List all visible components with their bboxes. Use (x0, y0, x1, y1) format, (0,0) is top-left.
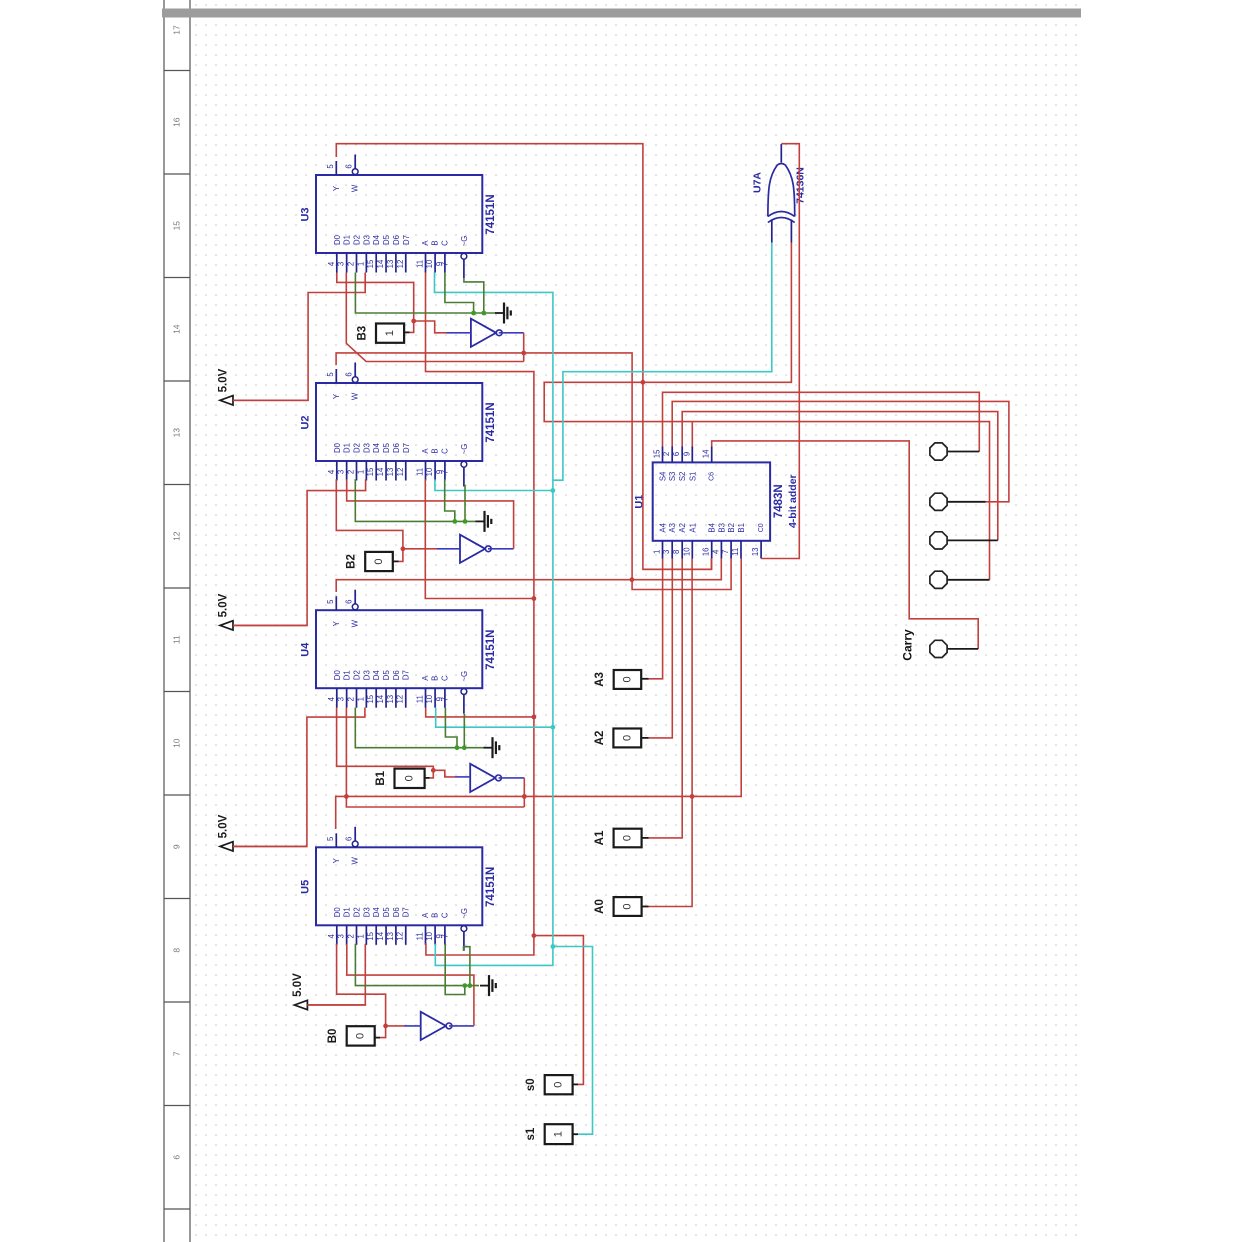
interactive constant B3 box (376, 324, 404, 343)
connector 3 stub (948, 539, 998, 541)
svg-text:13: 13 (386, 468, 395, 477)
svg-text:74151N: 74151N (485, 402, 497, 442)
svg-text:Carry: Carry (901, 629, 915, 661)
svg-text:~G: ~G (460, 671, 469, 682)
wire B2 inverter output to U2.D1 (488, 548, 514, 550)
svg-text:6: 6 (345, 164, 354, 168)
svg-text:5.0V: 5.0V (218, 593, 230, 617)
svg-text:17: 17 (172, 25, 182, 35)
svg-text:11: 11 (172, 635, 182, 644)
svg-text:D4: D4 (372, 234, 381, 245)
svg-text:10: 10 (425, 931, 434, 940)
svg-text:7: 7 (440, 697, 449, 701)
svg-text:3: 3 (337, 934, 346, 938)
svg-text:D0: D0 (333, 442, 342, 453)
svg-text:D5: D5 (382, 234, 391, 245)
wire U3.D3 to 5.0V rail 1 (233, 273, 365, 401)
svg-text:D2: D2 (353, 907, 362, 917)
svg-text:12: 12 (172, 531, 182, 541)
svg-text:D2: D2 (353, 670, 362, 680)
svg-text:12: 12 (396, 468, 405, 477)
svg-text:A: A (421, 675, 430, 681)
svg-text:12: 12 (396, 695, 405, 704)
svg-text:10: 10 (425, 467, 434, 476)
svg-text:D0: D0 (333, 670, 342, 681)
svg-text:s0: s0 (525, 1078, 537, 1091)
svg-text:~G: ~G (460, 908, 469, 919)
U4 pin 5 Y stub (335, 596, 337, 610)
U3 pin 5 Y stub (335, 161, 337, 175)
svg-text:D4: D4 (372, 670, 381, 681)
junction B-net U2.B (551, 488, 556, 493)
wire S4 to connector 1 (663, 392, 980, 451)
svg-text:W: W (351, 856, 360, 864)
svg-text:D0: D0 (333, 234, 342, 245)
ground symbol (476, 520, 485, 522)
svg-text:10: 10 (425, 259, 434, 268)
wire C6 to Carry connector (712, 441, 979, 649)
U2 pin 5 Y stub (335, 369, 337, 383)
svg-text:C: C (440, 675, 449, 681)
IC U3 74151N body (316, 175, 482, 253)
interactive constant A2 box (613, 729, 641, 748)
svg-text:3: 3 (662, 550, 671, 554)
svg-text:11: 11 (416, 932, 425, 940)
svg-text:2: 2 (347, 470, 356, 474)
power symbol 5.0V (220, 621, 233, 630)
junction H1 with B3 inverter output (521, 351, 526, 356)
svg-text:5: 5 (326, 164, 335, 169)
svg-text:6: 6 (345, 372, 354, 376)
sheet border ruler strip (163, 0, 165, 1242)
svg-text:11: 11 (416, 468, 425, 476)
wire S2 to connector 3 (682, 412, 998, 541)
svg-text:C: C (440, 240, 449, 246)
svg-text:4: 4 (327, 469, 336, 474)
svg-text:U2: U2 (300, 415, 312, 429)
svg-text:A3: A3 (668, 523, 677, 533)
svg-text:Y: Y (332, 620, 341, 626)
svg-text:D6: D6 (392, 670, 401, 680)
svg-text:7: 7 (721, 550, 730, 554)
svg-text:15: 15 (653, 449, 662, 458)
wire S1 pin drop (691, 422, 693, 447)
wire U4.D0 to B1 junction (337, 708, 434, 771)
svg-text:1: 1 (356, 262, 365, 266)
junction H1pp with B1 inverter output (522, 794, 527, 799)
svg-text:6: 6 (345, 600, 354, 604)
U2 pin ~G stub with bubble (461, 461, 467, 467)
svg-text:D3: D3 (362, 235, 371, 245)
svg-text:A2: A2 (678, 523, 687, 533)
junction U4 gnd C (455, 745, 460, 750)
svg-text:2: 2 (347, 697, 356, 701)
svg-text:A1: A1 (688, 523, 697, 533)
svg-text:B2: B2 (727, 523, 736, 533)
Carry connector stub (948, 648, 978, 650)
interactive constant A3 box (614, 670, 642, 689)
svg-text:1: 1 (653, 550, 662, 554)
power symbol 5.0V (220, 396, 233, 405)
wire U4.B to B-net (436, 708, 553, 728)
svg-text:D5: D5 (382, 670, 391, 681)
svg-text:10: 10 (682, 547, 691, 556)
wire U3.D1 diagonal to H2 (346, 273, 524, 362)
svg-text:S2: S2 (678, 472, 687, 482)
output connector 2 (930, 493, 947, 510)
svg-text:D0: D0 (333, 907, 342, 918)
svg-text:B4: B4 (708, 522, 717, 532)
IC U4 74151N body (316, 610, 482, 688)
IC U2 74151N body (316, 383, 482, 461)
wire B3 inverter input blue (447, 332, 471, 334)
svg-text:B1: B1 (737, 523, 746, 533)
ground symbol (495, 312, 504, 314)
svg-text:D6: D6 (392, 907, 401, 917)
U2 select pin stubs A B C (425, 461, 427, 481)
svg-text:74151N: 74151N (485, 630, 497, 670)
svg-text:7: 7 (172, 1051, 182, 1056)
wire select-A net from U3.A down to U5.A (426, 273, 534, 956)
svg-text:7: 7 (440, 262, 449, 266)
svg-text:2: 2 (347, 934, 356, 938)
svg-text:B3: B3 (717, 523, 726, 533)
svg-text:74136N: 74136N (795, 167, 807, 204)
svg-text:15: 15 (366, 931, 375, 940)
interactive constant s1 box (545, 1124, 573, 1144)
inverter NOT gate for B2 (460, 535, 485, 563)
svg-text:74151N: 74151N (485, 194, 497, 234)
svg-text:B: B (431, 676, 440, 681)
U1 top pin stubs S4 S3 S2 S1 C6 (662, 447, 664, 463)
wire B0 junction to inverter input (386, 1025, 404, 1027)
Carry connector (930, 640, 947, 657)
junction H1pp with A1 pin line (690, 794, 695, 799)
interactive constant B2 box (365, 552, 393, 571)
wire 5.0V rail 4 stub (307, 1004, 365, 1006)
svg-text:D7: D7 (402, 670, 411, 680)
wire A1 box to U1.A2 (642, 837, 649, 839)
svg-text:0: 0 (622, 903, 634, 909)
wire U4.Y line to U1.B3 (336, 558, 721, 592)
junction U4 gnd ~G (462, 745, 467, 750)
svg-text:2: 2 (662, 452, 671, 456)
junction U2 gnd ~G (463, 519, 468, 524)
junction U3 gnd C (471, 311, 476, 316)
svg-text:9: 9 (172, 844, 182, 849)
svg-text:D4: D4 (372, 442, 381, 453)
svg-text:1: 1 (356, 470, 365, 474)
svg-text:15: 15 (366, 694, 375, 703)
junction U3 gnd ~G (481, 311, 486, 316)
svg-text:B: B (431, 913, 440, 918)
svg-text:B0: B0 (327, 1029, 339, 1044)
svg-text:~G: ~G (460, 444, 469, 455)
svg-text:B1: B1 (375, 770, 387, 785)
svg-text:10: 10 (172, 738, 182, 748)
wire U5.D3 to 5.0V rail 4 (307, 944, 365, 1005)
svg-text:A: A (421, 448, 430, 454)
svg-text:3: 3 (337, 697, 346, 701)
junction H1 vertical with U4.Y line (630, 577, 635, 582)
wire B0 inverter output to U5.D1 (449, 1025, 474, 1027)
svg-text:14: 14 (376, 259, 385, 268)
svg-text:U3: U3 (300, 207, 312, 221)
svg-text:D5: D5 (382, 907, 391, 918)
junction A-net U4.A (532, 715, 537, 720)
grid dot background (191, 0, 1081, 1242)
wire U3.D0 to B3 junction (337, 273, 414, 322)
svg-text:14: 14 (702, 449, 711, 458)
svg-text:D3: D3 (362, 670, 371, 680)
wire U5 ground net D2 C ~G (355, 944, 479, 986)
svg-text:15: 15 (172, 221, 182, 231)
svg-text:13: 13 (386, 695, 395, 704)
wire 5.0V rail 2 stub (233, 624, 307, 626)
wire 5.0V rail 3 stub (233, 845, 307, 847)
output connector 1 (930, 443, 947, 460)
junction U2 gnd C (452, 519, 457, 524)
svg-text:U5: U5 (300, 880, 312, 894)
junction B-net U4.B (551, 725, 556, 730)
svg-text:B: B (431, 240, 440, 245)
connector 1 stub (948, 451, 980, 453)
svg-text:3: 3 (337, 262, 346, 266)
svg-text:15: 15 (366, 259, 375, 268)
junction at B2 output (401, 546, 406, 551)
svg-text:12: 12 (396, 260, 405, 269)
svg-text:A1: A1 (594, 830, 606, 845)
svg-text:D1: D1 (343, 670, 352, 680)
junction H1pp with U4.D1 (344, 794, 349, 799)
svg-text:D7: D7 (402, 443, 411, 453)
wire B3 junction jog to inverter input (414, 321, 447, 333)
wire select-B net U3.B down to U5.B (435, 273, 553, 966)
interactive constant B1 box (395, 769, 425, 788)
wire A3 box to U1.A4 (641, 678, 648, 680)
wire B2 box stub (393, 560, 399, 562)
wire U2.A to A-net (425, 479, 534, 598)
svg-text:Y: Y (332, 393, 341, 399)
U5 data pin stubs D0-D7 (336, 925, 338, 945)
svg-text:s1: s1 (525, 1127, 537, 1140)
U4 data pin stubs D0-D7 (336, 688, 338, 708)
ground symbol (480, 985, 489, 987)
wire s1 to B-net (573, 1133, 578, 1135)
U3 pin ~G stub with bubble (461, 253, 467, 259)
svg-text:U7A: U7A (752, 172, 764, 193)
wire B3 inverter output down through H1 (499, 332, 524, 334)
svg-text:13: 13 (386, 932, 395, 941)
power symbol 5.0V (220, 842, 233, 851)
svg-text:11: 11 (416, 260, 425, 268)
svg-text:A: A (421, 912, 430, 918)
junction A-net s0 (532, 933, 537, 938)
wire U2 ground net D2 C ~G (355, 479, 476, 521)
junction U5 gnd ~G (468, 983, 473, 988)
U4 select pin stubs A B C (425, 688, 427, 708)
IC U1 7483N body (653, 462, 770, 540)
svg-text:11: 11 (731, 548, 740, 556)
output connector 4 (930, 571, 947, 588)
wire U5.D0 to B0 junction (337, 944, 386, 1026)
inverter NOT gate for B1 (470, 764, 495, 792)
wire U7A output to U1 C0 (761, 144, 799, 559)
interactive constant B0 box (347, 1026, 375, 1045)
svg-text:6: 6 (172, 1155, 182, 1160)
wire B2 junction to inverter input (403, 548, 437, 550)
junction at B1 output (431, 768, 436, 773)
wire U1.B4 to U3Y vertical (643, 558, 712, 569)
svg-text:C6: C6 (709, 472, 716, 481)
svg-text:D2: D2 (353, 443, 362, 453)
svg-text:~G: ~G (460, 236, 469, 247)
svg-text:4: 4 (327, 933, 336, 938)
svg-text:D6: D6 (392, 235, 401, 245)
svg-text:11: 11 (416, 695, 425, 703)
wire 5.0V rail 1 stub (233, 399, 308, 401)
wire U3 Y pin5 to node A (long top line) (336, 144, 711, 570)
interactive constant A0 box (614, 897, 642, 916)
U1 bottom pin stubs A4-A1 B4-B1 C0 (662, 541, 664, 559)
junction U5 gnd C (462, 983, 467, 988)
IC U5 74151N body (316, 847, 482, 925)
svg-text:4: 4 (711, 549, 720, 554)
svg-text:0: 0 (553, 1082, 565, 1088)
svg-text:1: 1 (356, 934, 365, 938)
svg-text:13: 13 (386, 260, 395, 269)
junction U3Y line with H5 (641, 380, 646, 385)
wire U4.A to A-net (426, 708, 534, 717)
svg-text:B3: B3 (357, 326, 369, 341)
svg-text:4: 4 (327, 261, 336, 266)
svg-text:D3: D3 (362, 443, 371, 453)
wire U2.D3 to 5.0V rail 2 (233, 479, 366, 625)
XOR gate U7A 74136N body (768, 164, 795, 217)
svg-text:S1: S1 (688, 472, 697, 482)
svg-text:S3: S3 (668, 472, 677, 482)
U2 data pin stubs D0-D7 (336, 461, 338, 481)
svg-text:D5: D5 (382, 442, 391, 453)
svg-text:D3: D3 (362, 907, 371, 917)
svg-text:7: 7 (440, 934, 449, 938)
svg-text:13: 13 (172, 428, 182, 438)
svg-text:D2: D2 (353, 235, 362, 245)
U3 data pin stubs D0-D7 (336, 253, 338, 273)
svg-text:W: W (351, 619, 360, 627)
svg-text:C: C (440, 448, 449, 454)
connector 4 stub (948, 579, 990, 581)
svg-text:1: 1 (356, 697, 365, 701)
svg-text:16: 16 (702, 547, 711, 556)
output connector 3 (930, 532, 947, 549)
wire U7A input1 to B-net (553, 243, 772, 481)
svg-text:0: 0 (621, 676, 633, 682)
svg-text:5.0V: 5.0V (292, 973, 304, 997)
svg-text:4-bit adder: 4-bit adder (787, 474, 799, 528)
inverter NOT gate for B3 (471, 319, 496, 347)
svg-text:0: 0 (622, 835, 634, 841)
svg-text:A2: A2 (594, 731, 606, 746)
svg-text:5.0V: 5.0V (218, 368, 230, 392)
wire S3 to connector 2 (672, 401, 1009, 501)
svg-text:6: 6 (672, 452, 681, 456)
wire H1 U2.Y line to U1.B2 (336, 353, 731, 590)
gray top bar (162, 9, 1081, 18)
junction at B0 output (383, 1024, 388, 1029)
U4 pin ~G stub with bubble (461, 689, 467, 695)
connector 2 stub (948, 501, 986, 503)
ground symbol (484, 747, 493, 749)
svg-text:0: 0 (373, 558, 385, 564)
svg-text:4: 4 (327, 696, 336, 701)
wire B1 box stub (425, 777, 430, 779)
wire U2.B to B-net (435, 479, 553, 490)
svg-text:14: 14 (376, 467, 385, 476)
U4 pin 6 W stub with bubble (354, 590, 356, 604)
svg-text:10: 10 (425, 694, 434, 703)
wire B1 inverter output down (499, 777, 525, 779)
svg-text:A: A (421, 240, 430, 246)
junction at B3 output (411, 319, 416, 324)
svg-text:9: 9 (682, 452, 691, 456)
svg-text:D1: D1 (343, 235, 352, 245)
svg-text:5: 5 (326, 372, 335, 377)
svg-text:2: 2 (347, 262, 356, 266)
wire A0 box to U1.A1 (642, 906, 649, 908)
U2 pin 6 W stub with bubble (354, 363, 356, 377)
svg-text:S4: S4 (659, 471, 668, 481)
svg-text:14: 14 (376, 931, 385, 940)
svg-text:D7: D7 (402, 907, 411, 917)
wire B0 box stub (375, 1037, 380, 1039)
svg-text:A0: A0 (594, 899, 606, 914)
svg-text:C: C (440, 912, 449, 918)
U3 pin 6 W stub with bubble (354, 155, 356, 169)
svg-text:12: 12 (396, 932, 405, 941)
svg-text:Y: Y (332, 857, 341, 863)
svg-text:8: 8 (172, 948, 182, 953)
svg-text:1: 1 (553, 1131, 565, 1137)
wire A2 box to U1.A3 (641, 737, 648, 739)
wire U4 ground net D2 C ~G (355, 708, 486, 748)
svg-text:14: 14 (376, 694, 385, 703)
svg-text:74151N: 74151N (485, 867, 497, 907)
U7A output stub (780, 144, 782, 163)
U5 pin ~G stub with bubble (461, 926, 467, 932)
svg-text:D7: D7 (402, 235, 411, 245)
wire U2.D0 to B2 junction (336, 479, 403, 549)
svg-text:6: 6 (345, 837, 354, 841)
svg-text:A3: A3 (594, 672, 606, 687)
svg-text:Y: Y (332, 185, 341, 191)
U3 select pin stubs A B C (425, 253, 427, 273)
svg-text:3: 3 (337, 470, 346, 474)
svg-text:8: 8 (672, 550, 681, 554)
svg-text:D1: D1 (343, 907, 352, 917)
wire B1 junction jog to inverter input (433, 770, 455, 777)
svg-text:14: 14 (172, 324, 182, 334)
wire s0 to A-net (573, 1083, 578, 1085)
wire H1pp U5.Y line to U1.B1 (336, 558, 742, 829)
svg-text:0: 0 (355, 1033, 367, 1039)
interactive constant A1 box (614, 829, 642, 848)
junction B-net s1 (551, 944, 556, 949)
svg-text:B2: B2 (346, 554, 358, 569)
svg-text:0: 0 (404, 775, 416, 781)
svg-text:W: W (351, 184, 360, 192)
svg-text:B: B (431, 448, 440, 453)
